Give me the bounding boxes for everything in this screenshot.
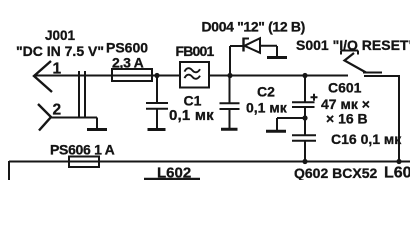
fuse PS606: [69, 157, 99, 168]
ground D004: [267, 56, 287, 59]
wire pin 2 to ground: [51, 118, 97, 129]
ground C2: [221, 128, 238, 131]
svg-text:D004 "12" (12 В): D004 "12" (12 В): [202, 19, 305, 35]
wire bottom left drop: [8, 161, 10, 180]
plus sign C601: [311, 94, 318, 101]
svg-text:0,1 мк: 0,1 мк: [169, 107, 214, 124]
svg-text:Q602 BCX52: Q602 BCX52: [294, 165, 377, 180]
wire bottom rail: [9, 161, 410, 163]
capacitor C16: [292, 118, 316, 162]
capacitor C1: [146, 76, 168, 128]
svg-text:PS606 1 A: PS606 1 A: [50, 142, 115, 158]
diode D004 cathode bar: [242, 38, 244, 52]
node junction C601 top: [302, 73, 307, 78]
svg-text:PS600: PS600: [106, 40, 148, 56]
wire diode branch: [230, 46, 243, 75]
node junction C16 bottom: [302, 159, 307, 164]
wire junction to ground: [277, 118, 303, 130]
wire diode anode: [260, 46, 277, 56]
svg-text:"DC IN 7.5 V": "DC IN 7.5 V": [16, 43, 104, 59]
ferrite bead FB001: [180, 62, 209, 88]
node junction FB001 right: [227, 73, 232, 78]
svg-text:FB001: FB001: [176, 43, 215, 59]
diode D004 triangle: [245, 38, 261, 53]
svg-text:2,3 A: 2,3 A: [112, 55, 144, 71]
connector J001 body lines: [79, 71, 85, 118]
svg-text:C601: C601: [328, 80, 362, 96]
node junction right rail: [396, 159, 401, 164]
wire switch right to corner: [364, 75, 399, 162]
fuse PS600: [112, 69, 152, 81]
switch S001 button cap: [341, 51, 358, 55]
svg-text:2: 2: [53, 102, 62, 119]
switch S001 lever: [345, 53, 367, 73]
ground C1: [148, 128, 166, 131]
svg-text:1: 1: [53, 61, 62, 78]
ground connector: [87, 128, 107, 131]
svg-text:C2: C2: [257, 84, 275, 100]
svg-text:C16 0,1 мк: C16 0,1 мк: [331, 131, 402, 147]
svg-text:J001: J001: [45, 28, 76, 43]
svg-text:0,1 мк: 0,1 мк: [246, 100, 288, 116]
connector J001 pin 1 arrow: [34, 61, 52, 92]
wire main horizontal rail: [35, 75, 348, 77]
svg-text:S001 "I/O RESET": S001 "I/O RESET": [296, 37, 410, 53]
switch S001 contact bar: [363, 72, 382, 74]
node junction FB001 left: [154, 73, 159, 78]
svg-text:L602: L602: [157, 165, 191, 181]
inductor L602 line: [144, 178, 200, 181]
node junction C601/C16: [302, 115, 307, 120]
svg-text:L60: L60: [384, 165, 410, 181]
ground C601: [266, 130, 286, 133]
connector J001 pin 2 arrow: [38, 104, 51, 131]
capacitor C2: [220, 76, 240, 128]
svg-text:× 16 В: × 16 В: [326, 111, 368, 127]
capacitor C601: [292, 76, 315, 118]
